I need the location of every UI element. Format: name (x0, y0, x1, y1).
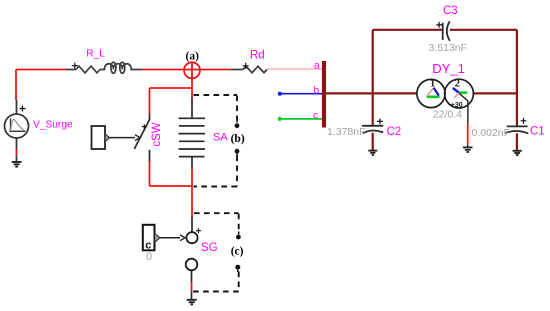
svg-text:(b): (b) (231, 133, 245, 145)
svg-text:C2: C2 (387, 126, 402, 138)
svg-text:V_Surge: V_Surge (33, 119, 73, 130)
svg-text:C3: C3 (443, 5, 458, 17)
svg-text:c: c (145, 240, 151, 252)
svg-text:R_L: R_L (86, 48, 105, 59)
svg-text:c: c (313, 111, 318, 122)
svg-text:a: a (314, 61, 320, 72)
svg-text:Rd: Rd (250, 50, 265, 62)
svg-text:b: b (314, 86, 320, 97)
svg-text:SA: SA (213, 131, 228, 143)
svg-text:(c): (c) (231, 246, 244, 258)
svg-text:0.002nF: 0.002nF (472, 127, 511, 139)
svg-text:(a): (a) (186, 51, 200, 63)
svg-text:1.378nF: 1.378nF (327, 126, 366, 138)
svg-text:cSW: cSW (151, 122, 163, 146)
svg-text:1: 1 (430, 78, 435, 89)
svg-text:DY_1: DY_1 (432, 61, 465, 76)
svg-text:0: 0 (146, 251, 152, 263)
svg-text:3.513nF: 3.513nF (429, 42, 468, 54)
svg-text:2: 2 (455, 78, 460, 89)
svg-text:C1: C1 (530, 126, 545, 138)
svg-text:22/0.4: 22/0.4 (433, 109, 462, 121)
svg-text:SG: SG (201, 242, 218, 254)
